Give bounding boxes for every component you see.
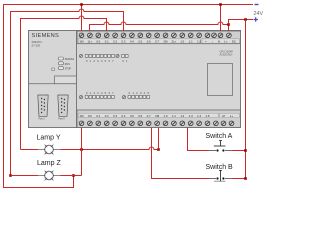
terminal 1M (input row)	[79, 114, 84, 126]
terminal 1L+ (output row)	[88, 33, 93, 44]
lamp Y	[37, 134, 61, 154]
svg-text:Switch B: Switch B	[206, 164, 234, 171]
PLC U1 body	[29, 31, 241, 128]
svg-text:Lamp Z: Lamp Z	[37, 160, 61, 167]
terminal 1M (output row)	[79, 33, 84, 44]
wire 0V top rail	[4, 5, 254, 188]
node junction +rail / right drop	[244, 18, 247, 21]
terminal 0.0 (output row)	[96, 33, 101, 44]
comm port Port 1	[38, 95, 48, 121]
node corner lamp Z left	[9, 174, 12, 177]
wire lamp Y output net: terminal 0.1 loop to lamp	[21, 16, 107, 150]
bottom terminal strip	[77, 110, 241, 128]
lamp Z	[37, 160, 61, 180]
svg-text:Lamp Y: Lamp Y	[37, 134, 61, 141]
expansion connector box	[208, 64, 233, 96]
top terminal strip	[77, 31, 241, 44]
wire drop to top terminal 1M	[81, 5, 83, 32]
switch B	[206, 164, 234, 181]
supply 24V plus mark	[254, 17, 259, 21]
status LED RUN	[58, 62, 70, 66]
wire switch A net: bottom terminal to switch A	[188, 128, 217, 151]
wire lamp Z output net: terminal 0.3 loop to lamp	[11, 9, 124, 176]
terminal 1.5 (input row)	[205, 114, 210, 126]
terminal power L+	[227, 33, 232, 38]
wire drop to power terminal M	[220, 5, 222, 32]
status LED STOP	[58, 67, 71, 71]
terminal spare (input row)	[214, 121, 219, 126]
terminal 0.4 (output row)	[130, 33, 135, 44]
terminal 2M (input row)	[155, 114, 160, 126]
terminal 1.3 (input row)	[188, 114, 193, 126]
node lamp Y / common riser	[80, 148, 83, 151]
svg-text:Switch A: Switch A	[206, 133, 233, 140]
terminal 1.2 (input row)	[180, 114, 185, 126]
terminal 0.5 (output row)	[138, 33, 143, 44]
terminal 1.4 (input row)	[197, 114, 202, 126]
terminal power ▪	[205, 33, 210, 38]
wire right vertical +24V down to switches	[245, 20, 247, 179]
left panel divider line	[29, 83, 77, 85]
terminal 0.6 (output row)	[146, 33, 151, 44]
wire +24V rail to supply	[229, 20, 254, 25]
top terminal strip housing	[77, 31, 241, 44]
terminal power N	[218, 33, 223, 38]
terminal 0.3 (input row)	[113, 114, 118, 126]
terminal 0.2 (output row)	[113, 33, 118, 44]
terminal 0.0 (input row)	[88, 114, 93, 126]
terminal 0.5 (input row)	[130, 114, 135, 126]
terminal 1.0 (output row)	[180, 33, 185, 44]
terminal power ↓	[212, 33, 217, 38]
output LED row	[79, 54, 128, 63]
svg-text:24V: 24V	[254, 11, 264, 17]
node junction L+	[227, 23, 230, 26]
PLC left panel divider	[76, 31, 78, 128]
terminal 0.7 (output row)	[155, 33, 160, 44]
terminal sensor supply L+	[229, 114, 234, 126]
terminal 0.4 (input row)	[121, 114, 126, 126]
node lamp Y wire end	[157, 148, 160, 151]
wire switch B right to vertical	[225, 178, 246, 180]
wire lamp Y row	[21, 147, 159, 150]
supply 24V minus mark	[255, 4, 259, 6]
wire common riser bottom 1M to lamp rows	[81, 128, 83, 176]
mode selector icon	[52, 68, 55, 71]
wire lamp Z row	[11, 175, 82, 177]
node junction top rail / 1M drop	[80, 3, 83, 6]
terminal 0.1 (input row)	[96, 114, 101, 126]
node bottom rail riser joins lamp Z row	[72, 174, 75, 177]
terminal sensor supply M	[221, 114, 226, 126]
switch A	[206, 133, 233, 151]
wire switch B net: bottom terminal to switch B	[152, 128, 217, 179]
terminal 1.1 (output row)	[188, 33, 193, 44]
bottom terminal strip housing	[77, 110, 241, 128]
node switch A / right vertical	[244, 149, 247, 152]
node switch B / right vertical corner	[244, 177, 247, 180]
terminal 1.0 (input row)	[163, 114, 168, 126]
terminal 1.1 (input row)	[172, 114, 177, 126]
terminal 0.1 (output row)	[104, 33, 109, 44]
terminal 0.2 (input row)	[104, 114, 109, 126]
wire riser to bottom terminal 2M	[158, 128, 160, 150]
terminal 1.2 (output row)	[197, 33, 202, 44]
terminal 0.6 (input row)	[138, 114, 143, 126]
terminal 2M (output row)	[163, 33, 168, 44]
wire switch A right to vertical	[225, 150, 246, 152]
wire power L+ drop	[228, 25, 230, 32]
terminal 2L+ (output row)	[172, 33, 177, 44]
memory cartridge slot box	[55, 76, 77, 84]
node junction top rail / M drop	[219, 3, 222, 6]
status LED SF/DIAG	[58, 57, 74, 61]
comm port Port 0	[58, 95, 68, 121]
wire +24V from terminal 1L+ to power L+ with hops	[90, 22, 229, 31]
terminal 0.3 (output row)	[121, 33, 126, 44]
terminal 0.7 (input row)	[146, 114, 151, 126]
input LED row	[79, 91, 149, 99]
